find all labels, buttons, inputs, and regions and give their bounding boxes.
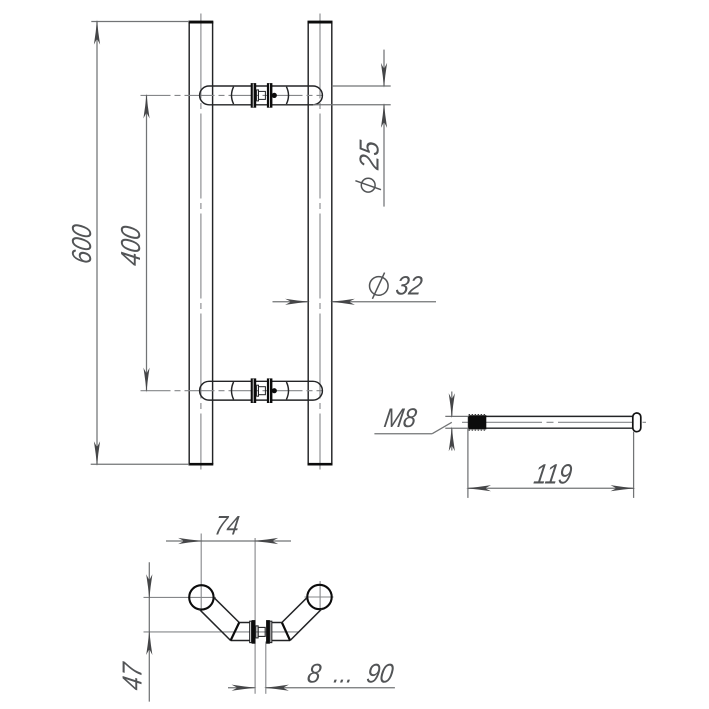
dim 400 top arrow [143, 94, 149, 119]
dim M8 line [451, 392, 453, 451]
screw rod outline [469, 416, 634, 428]
lower standoff capsule [200, 381, 323, 400]
dim 74 line [166, 540, 291, 542]
dim 8-90 label [305, 658, 395, 689]
dim 119 line [468, 487, 634, 489]
top view left arm [199, 597, 240, 640]
top view mounting plane right [265, 642, 267, 694]
right tube centerline [319, 14, 321, 470]
left tube centerline [200, 14, 202, 470]
svg-text:119: 119 [532, 458, 575, 490]
lower nut [259, 387, 266, 395]
dim 32 label [394, 271, 425, 301]
lower standoff centerline [141, 390, 323, 392]
dim 600 top extension line [91, 21, 189, 23]
top view left washer ring [250, 621, 252, 642]
dim 25 line upper [383, 50, 385, 86]
lower right washer [267, 378, 273, 403]
lower weld arc right [286, 382, 288, 399]
dim 119 right arrow [611, 485, 636, 491]
dia symbol 32 [370, 273, 389, 299]
upper nut flange [257, 90, 259, 101]
dim M8 label [382, 402, 419, 433]
dim M8 leader [374, 422, 451, 433]
svg-text:M8: M8 [382, 402, 419, 433]
dim 8-90 left arrow [232, 685, 257, 691]
upper weld arc left [232, 87, 234, 104]
dim 600 top arrow [94, 20, 100, 45]
top view right arm [282, 597, 322, 640]
top view right stub [272, 623, 290, 641]
left tube top cap [189, 21, 214, 24]
dim 8-90 line [228, 687, 395, 689]
right tube top cap [308, 21, 333, 24]
dim 119 extension left [467, 428, 469, 498]
top view left washer [252, 620, 256, 644]
svg-text:8 ... 90: 8 ... 90 [305, 658, 395, 689]
upper standoff centerline [141, 94, 323, 96]
lower left washer [251, 378, 257, 403]
dim 47 upper arrow [146, 574, 152, 599]
svg-text:74: 74 [213, 510, 242, 541]
lower screw point [272, 388, 277, 393]
top view right grip centerline horizontal [305, 596, 334, 598]
top view left grip centerline horizontal [144, 596, 216, 598]
upper standoff capsule [200, 86, 323, 105]
top view right washer [266, 620, 270, 644]
dim 74 right arrow [253, 538, 278, 544]
dim M8 upper arrow [449, 393, 455, 418]
left tube bottom cap [189, 463, 214, 466]
dim 400 bottom arrow [143, 368, 149, 393]
top view right grip centerline vertical [319, 581, 321, 611]
top view nut flange [256, 626, 258, 638]
svg-text:25: 25 [354, 138, 385, 172]
upper screw point [272, 93, 277, 98]
dim 25 extension bottom [313, 104, 391, 106]
top view right washer ring [270, 621, 272, 642]
svg-text:32: 32 [394, 271, 425, 301]
top view nut [258, 627, 265, 636]
dim 47 line [148, 562, 150, 701]
top view left stub [231, 623, 250, 641]
top view mounting plane left [254, 538, 256, 694]
upper right washer [267, 83, 273, 108]
dim 25 upper arrow [381, 63, 387, 88]
svg-text:600: 600 [66, 222, 97, 266]
svg-text:400: 400 [115, 223, 146, 267]
dim 47 lower arrow [146, 630, 152, 655]
top view left grip circle [189, 585, 213, 609]
dim 600 line [96, 22, 98, 465]
dim 32 line left [273, 301, 309, 303]
right tube bottom cap [308, 463, 333, 466]
lower weld arc left [232, 382, 234, 399]
dim 600 bottom arrow [94, 441, 100, 466]
dim 32 right arrow [330, 299, 355, 305]
dim 25 line lower [383, 105, 385, 207]
top view left grip centerline vertical [200, 534, 202, 612]
dim 119 label [532, 458, 575, 490]
dim 25 extension top [332, 85, 391, 87]
dim 119 left arrow [466, 485, 491, 491]
right tube outline [308, 22, 332, 465]
dim 600 label [66, 222, 97, 266]
upper left washer [251, 83, 257, 108]
top view right grip circle [307, 585, 331, 609]
top view assembly centerline [144, 631, 300, 633]
dim 32 line right [332, 301, 436, 303]
dim 74 label [213, 510, 242, 541]
dim 25 lower arrow [381, 103, 387, 128]
dim 47 label [117, 659, 148, 692]
left tube outline [189, 22, 212, 465]
screw centerline [462, 421, 646, 423]
dim 119 extension right [633, 432, 635, 498]
dim 32 left arrow [285, 299, 310, 305]
dim M8 lower arrow [449, 426, 455, 451]
dim M8 extension lines [445, 416, 468, 428]
screw head [633, 413, 641, 432]
dim 600 bottom extension line [91, 463, 190, 465]
dim 74 left arrow [178, 538, 203, 544]
dim 400 line [146, 95, 148, 390]
screw thread section [469, 414, 487, 430]
upper nut [259, 91, 266, 99]
dia symbol 25 [355, 178, 381, 192]
lower nut flange [257, 385, 259, 396]
dim 400 label [115, 223, 146, 267]
upper weld arc right [286, 87, 288, 104]
dim 25 label [354, 138, 385, 172]
dim 8-90 right arrow [264, 685, 289, 691]
